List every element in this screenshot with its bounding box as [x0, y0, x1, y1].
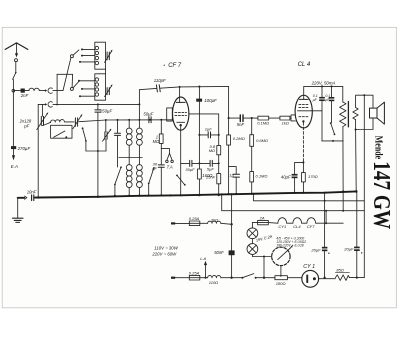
cathode branch 40uF: [295, 162, 304, 174]
wire y118: [229, 117, 291, 119]
trimmer cap bank2: [107, 88, 109, 95]
svg-text:E.A: E.A: [11, 164, 18, 169]
capacitor 100uF: [198, 87, 200, 99]
contact arrow 2: [45, 103, 47, 106]
svg-text:110Ω: 110Ω: [209, 280, 218, 285]
svg-text:CL 4: CL 4: [298, 62, 311, 68]
junction dots wire y120: [105, 119, 107, 121]
speaker: [370, 108, 378, 118]
core: [347, 102, 349, 127]
vertical x325: [324, 193, 326, 247]
svg-text:2A: 2A: [259, 216, 265, 221]
horizontal y211: [222, 194, 365, 210]
CF7 anode: [176, 101, 185, 103]
svg-text:50nF: 50nF: [214, 250, 224, 255]
wire: [53, 90, 63, 92]
fuse 0.25A top: [189, 221, 200, 226]
node antenna/in: [12, 89, 15, 92]
resistor 0.8M: [217, 146, 221, 155]
wire antenna down: [15, 62, 17, 73]
anode wire y86: [304, 85, 343, 87]
lamp 2: [247, 244, 258, 255]
ground: [17, 198, 19, 218]
anode tap: [189, 114, 219, 146]
wire y104: [38, 103, 45, 105]
svg-text:1kΩ: 1kΩ: [282, 120, 289, 125]
bus junction dots: [37, 196, 39, 198]
svg-text:1µF: 1µF: [205, 127, 213, 132]
svg-text:147 GW: 147 GW: [368, 161, 395, 229]
svg-text:2nF: 2nF: [20, 93, 29, 98]
capacitor 270uF: [11, 146, 16, 149]
svg-text:110V ~ 30W: 110V ~ 30W: [154, 245, 178, 250]
wire A anode top: [139, 86, 228, 89]
resistor 1k: [280, 116, 290, 120]
svg-text:Mende: Mende: [372, 136, 383, 160]
svg-text:20µF: 20µF: [310, 247, 321, 252]
svg-text:10nF: 10nF: [27, 189, 37, 194]
resistor 0.6M + 0.1M column: [251, 118, 253, 135]
resistor 160 Ohm: [197, 169, 201, 179]
vertical x343: [342, 127, 344, 211]
CL4 cathode: [302, 120, 304, 122]
contact arrow: [45, 89, 47, 92]
ballast tube: [272, 247, 290, 265]
resistor 25nF column: [217, 174, 221, 184]
coil loops bank2: [95, 78, 98, 81]
coil IF1a: [128, 120, 130, 128]
svg-text:0.1MΩ: 0.1MΩ: [257, 121, 269, 126]
capacitor 30uF below: [160, 143, 162, 164]
antenna: [5, 43, 28, 50]
switch near 160: [177, 176, 184, 185]
resistor 85 Ohm: [335, 275, 349, 281]
svg-text:5µF: 5µF: [207, 167, 215, 172]
svg-text:20µF: 20µF: [343, 247, 354, 252]
tube CF7: [173, 97, 189, 130]
wire y104 run: [53, 103, 139, 105]
svg-text:0.25A: 0.25A: [189, 271, 200, 276]
svg-text:180-220V + E.U18: 180-220V + E.U18: [276, 243, 303, 247]
transformer secondary: [353, 108, 358, 120]
capacitor 1uF link: [199, 134, 218, 136]
svg-text:40µF: 40µF: [281, 174, 291, 179]
trimmer cap osc: [75, 118, 77, 126]
lever S2: [73, 81, 79, 87]
svg-text:0.2MΩ: 0.2MΩ: [233, 136, 245, 141]
switch tone: [331, 123, 335, 134]
mains lead 1 pin: [171, 222, 175, 224]
link y151: [86, 150, 106, 152]
svg-text:100µF: 100µF: [204, 98, 217, 103]
svg-text:CL4: CL4: [293, 224, 301, 229]
linkage S2: [57, 74, 73, 87]
speaker frame: [356, 95, 373, 108]
switch x86: [83, 129, 86, 141]
svg-text:0.1MΩ: 0.1MΩ: [256, 174, 268, 179]
coil L2b: [137, 165, 143, 171]
svg-text:160Ω: 160Ω: [202, 173, 213, 178]
taps bank1: [82, 48, 95, 50]
switch wave band: [115, 168, 121, 185]
wire to earth arrow: [13, 149, 15, 155]
CL4 grids: [299, 104, 309, 106]
svg-text:MΩ: MΩ: [209, 148, 215, 153]
cap on x98: [97, 104, 99, 109]
pivot contact S2: [70, 87, 73, 90]
grid wire y120: [79, 120, 173, 122]
svg-text:L.A: L.A: [200, 256, 206, 261]
capacitor 0.1uF a: [321, 86, 323, 97]
CL4 anode: [300, 98, 309, 100]
tube CL4: [295, 95, 312, 128]
switch x150: [149, 168, 154, 183]
svg-text:170Ω: 170Ω: [308, 174, 318, 179]
resistor 180 Ohm: [275, 276, 288, 280]
wire gang rotor down: [37, 104, 39, 196]
switch lever band1: [63, 58, 71, 91]
switch antenna: [13, 73, 16, 80]
svg-text:pF: pF: [23, 124, 29, 129]
wire left column: [12, 80, 14, 147]
svg-text:270µF: 270µF: [17, 146, 31, 151]
caps row 30uF 5uF: [181, 162, 219, 164]
wire y90: [15, 90, 21, 92]
resistor 1MOhm: [160, 120, 162, 134]
transformer primary: [342, 86, 344, 102]
coil L2a: [126, 165, 132, 171]
wire bank column: [105, 69, 107, 74]
coil IF1b: [138, 120, 140, 128]
svg-text:1µ: 1µ: [229, 172, 234, 177]
svg-text:CF7: CF7: [307, 224, 315, 229]
tube CF7 grid box: [167, 108, 173, 121]
svg-text:30µF: 30µF: [185, 167, 195, 172]
capacitor 50uF: [149, 117, 151, 123]
resistor 0.2M: [228, 117, 230, 119]
horizontal y201: [253, 194, 364, 201]
capacitor 5nF: [240, 115, 243, 122]
lamp chain top: [252, 222, 257, 224]
CF7 cathode: [177, 121, 185, 123]
CF7 grids: [175, 112, 187, 114]
coil loops bank1: [95, 46, 98, 49]
contact on bus: [25, 196, 27, 199]
fuse 0.25A bottom: [189, 275, 200, 280]
resistor 170 Ohm: [302, 162, 304, 172]
grid clip CL4: [291, 115, 295, 121]
svg-text:50µF: 50µF: [143, 111, 153, 116]
vertical x364: [363, 95, 365, 277]
coil box bank2: [95, 74, 106, 100]
coil box bank1: [95, 42, 106, 69]
capacitor 0.1uF b: [331, 86, 333, 97]
capacitor x117: [117, 120, 119, 133]
antenna contact: [15, 59, 18, 62]
rectifier CY1: [302, 270, 319, 287]
wire: [39, 90, 45, 92]
svg-text:µF: µF: [152, 166, 157, 171]
choke 30 Ohm: [208, 221, 221, 223]
corner to coupling: [228, 86, 230, 118]
svg-text:30Ω: 30Ω: [211, 217, 219, 222]
link y157: [119, 157, 142, 159]
chassis bus: [18, 197, 25, 199]
resistor 0.1M series: [258, 116, 269, 120]
mains switch: [241, 277, 243, 279]
lamp 1: [247, 228, 258, 239]
pivot contact S1: [70, 55, 73, 58]
capacitor 2nF: [21, 89, 25, 93]
gang capacitor 2x128pF: [41, 104, 43, 116]
coil box osc with switch: [51, 125, 72, 138]
trimmer x106: [105, 120, 107, 132]
svg-text:CY1: CY1: [278, 224, 286, 229]
choke 110 Ohm: [208, 276, 221, 278]
svg-text:0.25A: 0.25A: [189, 216, 200, 221]
link to ballast: [252, 256, 271, 258]
riser x139 to wire A: [138, 90, 140, 120]
svg-text:180Ω: 180Ω: [276, 281, 286, 286]
svg-text:CF 7: CF 7: [168, 63, 182, 69]
svg-text:220V, 50mA: 220V, 50mA: [311, 80, 336, 85]
wire: [25, 90, 29, 92]
svg-text:CY 1: CY 1: [303, 264, 315, 270]
coil osc: [51, 120, 65, 123]
heater string: [268, 222, 278, 225]
svg-text:110pF: 110pF: [154, 78, 166, 83]
capacitor 1u: [229, 167, 237, 174]
coil ant: [29, 88, 39, 90]
svg-text:220V ~ 60W: 220V ~ 60W: [151, 252, 177, 257]
capacitor 10nF: [32, 195, 34, 201]
capacitor 110pF: [156, 85, 160, 92]
vertical x231 with 50nF: [231, 194, 233, 278]
mains lead 2 pin: [171, 277, 175, 279]
fuse 2A: [258, 220, 269, 224]
taps bank2: [79, 80, 95, 82]
trimmer cap bank1: [107, 52, 109, 60]
svg-text:85Ω: 85Ω: [336, 267, 344, 272]
link y141: [322, 140, 343, 142]
wire: [65, 121, 75, 123]
svg-text:5nF: 5nF: [237, 122, 245, 127]
svg-text:T.A: T.A: [167, 164, 173, 169]
lever S1: [73, 50, 79, 55]
arrow LA: [204, 277, 206, 279]
svg-text:MΩ: MΩ: [153, 139, 160, 144]
svg-text:0.6MΩ: 0.6MΩ: [256, 138, 268, 143]
svg-text:150µF: 150µF: [100, 108, 113, 113]
jack TA: [161, 149, 169, 154]
vertical x356 down: [355, 130, 358, 192]
